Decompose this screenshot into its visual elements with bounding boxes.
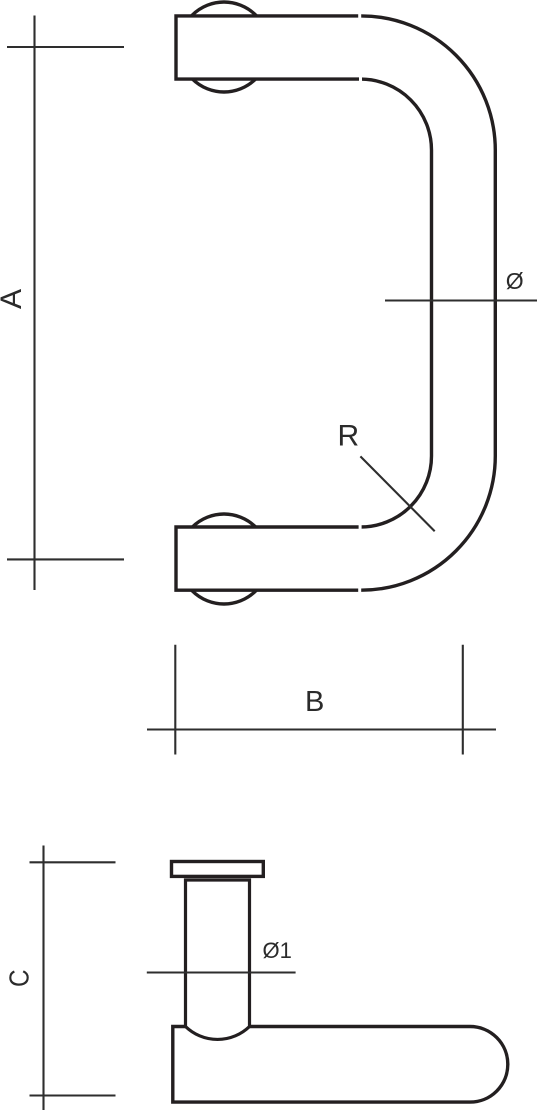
svg-text:A: A [0,289,28,309]
svg-text:R: R [338,420,360,453]
svg-text:B: B [305,686,324,718]
svg-text:C: C [3,969,35,987]
svg-text:Ø: Ø [506,268,524,294]
svg-text:Ø1: Ø1 [263,938,292,963]
